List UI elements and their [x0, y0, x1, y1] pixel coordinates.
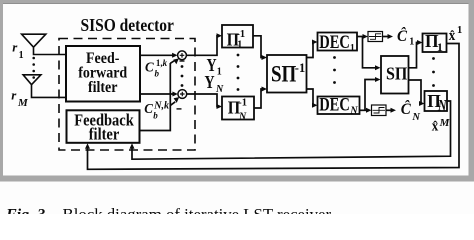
arrow into DECN — [312, 103, 318, 108]
svg-text:1: 1 — [19, 50, 24, 61]
wire DEC1 to HD1 — [357, 36, 363, 38]
arrow to CN label — [391, 108, 397, 113]
arrow into adder2 from FF — [172, 92, 178, 97]
wire SPI to P1 — [409, 43, 418, 68]
arrow into SPIinv top — [262, 55, 268, 60]
svg-text:1: 1 — [237, 40, 242, 51]
svg-text:-1: -1 — [236, 29, 245, 40]
svg-text:N,k: N,k — [153, 101, 169, 112]
DECN box — [318, 97, 360, 115]
dots adders — [181, 65, 184, 68]
HD1 step symbol — [369, 34, 382, 40]
svg-text:filter: filter — [88, 79, 118, 96]
arrow diag into adder1 — [173, 58, 179, 64]
arrow into adder1 from FF — [172, 53, 178, 58]
svg-text:-1: -1 — [295, 61, 305, 75]
svg-text:b: b — [155, 68, 160, 78]
svg-text:Block diagram of iterative LST: Block diagram of iterative LST receiver. — [63, 205, 335, 214]
dots P-inv col — [237, 54, 240, 57]
svg-text:1,k: 1,k — [156, 58, 168, 68]
wire DECN to HD2 — [360, 109, 367, 111]
svg-text:C: C — [145, 59, 154, 74]
adder A1 circle — [178, 51, 187, 60]
svg-text:C: C — [144, 101, 153, 116]
loop A wire from PN — [132, 101, 451, 159]
wire YN — [187, 94, 218, 107]
svg-text:filter: filter — [89, 126, 120, 144]
branch DEC1 to SPI — [363, 37, 377, 68]
svg-text:1: 1 — [217, 67, 222, 78]
svg-text:DEC: DEC — [319, 31, 350, 52]
svg-text:x̂: x̂ — [432, 118, 439, 134]
arrow into P1inv — [217, 33, 223, 38]
wire Y1 — [186, 36, 218, 56]
svg-text:M: M — [17, 97, 29, 109]
branch DECN to SPI — [365, 80, 377, 111]
minus near adder1 — [180, 60, 185, 61]
arrow into P1 — [417, 40, 423, 45]
wire P1inv to SPIinv — [253, 36, 262, 58]
grey frame top — [0, 0, 474, 3]
arrow into SPI bottom — [375, 77, 381, 82]
arrow loop A into FB box — [130, 143, 135, 149]
antenna 2 — [23, 75, 66, 98]
svg-text:Fig. 3.: Fig. 3. — [5, 207, 49, 215]
svg-text:x̂: x̂ — [449, 27, 456, 43]
wire FF out top — [140, 54, 174, 56]
svg-text:SISO detector: SISO detector — [81, 15, 175, 35]
HD1 box — [368, 32, 383, 42]
arrow into PN — [419, 101, 425, 106]
interleaver P1 box — [423, 34, 447, 53]
interleaver-inv N box — [222, 97, 254, 120]
svg-text:1: 1 — [350, 43, 355, 53]
adder A2 circle — [178, 90, 187, 99]
arrow to C1 label — [388, 34, 394, 39]
arrow into PNinv — [217, 104, 223, 109]
wire HD2 to CN — [386, 109, 392, 111]
antenna 1 — [22, 34, 66, 54]
grey frame left — [0, 0, 3, 182]
svg-text:N: N — [238, 112, 247, 123]
HD2 step symbol — [373, 108, 386, 114]
dots antennas — [32, 57, 35, 60]
svg-text:Ĉ: Ĉ — [397, 28, 408, 45]
SPI box — [381, 56, 409, 94]
arrow into HD1 — [363, 34, 369, 39]
wire SPIinv to DEC1 — [307, 42, 315, 58]
grey frame bottom — [0, 176, 474, 182]
dashed SISO box — [59, 39, 195, 151]
svg-text:-1: -1 — [238, 98, 247, 109]
svg-text:DEC: DEC — [319, 94, 350, 115]
svg-text:N: N — [349, 105, 358, 116]
interleaver-inv 1 box — [222, 25, 253, 48]
arrow diag into adder2 — [174, 97, 180, 103]
arrow into DEC1 — [312, 40, 318, 45]
feedback filter box — [67, 110, 140, 143]
svg-text:SΠ: SΠ — [386, 64, 408, 84]
wire SPI to PN — [409, 80, 423, 104]
wire SPIinv to DECN — [307, 89, 315, 105]
diagonal into adder1 — [170, 60, 175, 63]
DEC1 box — [318, 33, 358, 51]
svg-text:Ĉ: Ĉ — [401, 101, 412, 118]
HD2 box — [372, 105, 387, 116]
diagonal into adder2 — [171, 102, 176, 106]
feedback filter out wire — [140, 63, 171, 131]
svg-text:1: 1 — [409, 37, 414, 48]
dots P col — [432, 57, 435, 60]
grey frame right — [469, 0, 474, 182]
svg-text:Y: Y — [205, 72, 215, 92]
svg-text:1: 1 — [437, 40, 443, 54]
svg-text:b: b — [153, 110, 158, 120]
feed-forward filter box — [66, 46, 140, 102]
SPI-inv box — [267, 55, 307, 93]
svg-text:SΠ: SΠ — [271, 61, 296, 87]
svg-text:N: N — [215, 84, 224, 95]
wire HD1 to C1 — [383, 36, 389, 38]
svg-text:1: 1 — [457, 25, 462, 36]
wire PNinv to SPIinv — [254, 89, 262, 108]
svg-text:N: N — [437, 98, 447, 115]
minus near adder2 — [177, 108, 182, 109]
arrow into SPIinv bottom — [262, 87, 268, 92]
loop B wire from P1 — [88, 44, 460, 170]
svg-text:M: M — [439, 117, 451, 129]
arrow loop B into FB box — [85, 143, 90, 149]
interleaver PN box — [425, 91, 448, 111]
dots DEC col — [333, 56, 336, 59]
svg-text:N: N — [411, 112, 420, 123]
arrow into HD2 — [366, 108, 372, 113]
wire FF out bottom — [140, 93, 174, 95]
arrow into SPI top — [375, 65, 381, 70]
